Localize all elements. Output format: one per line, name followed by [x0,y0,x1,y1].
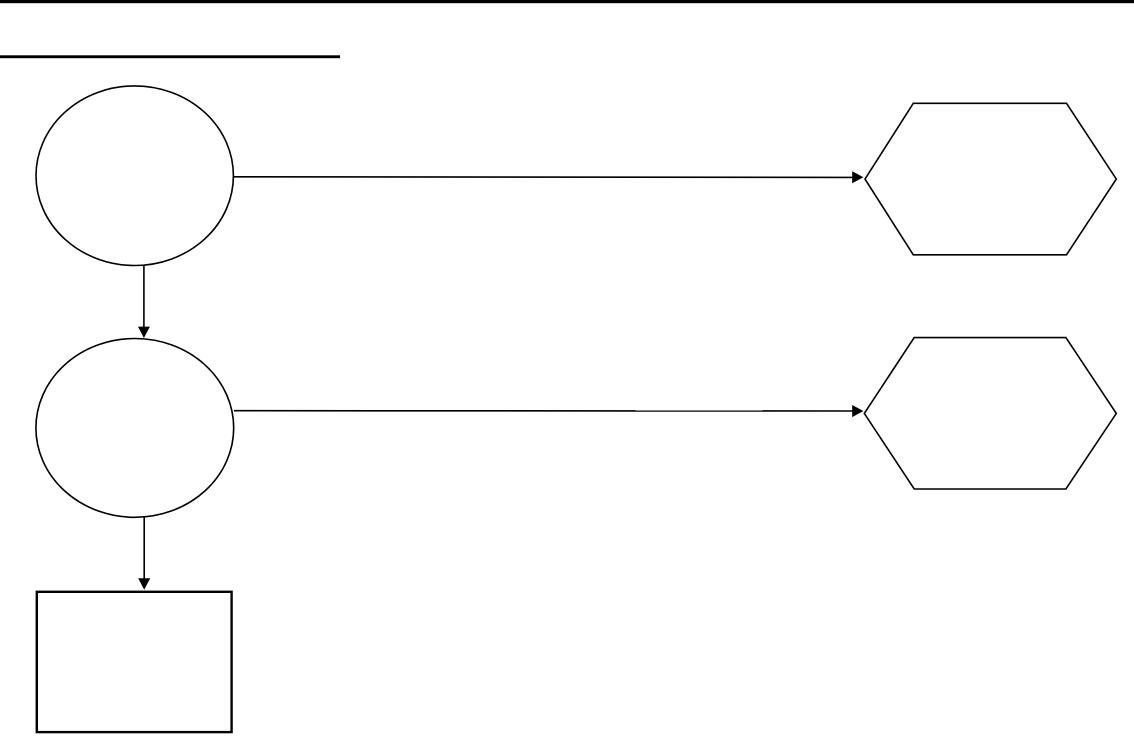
rectangle (bottom-left process box) [37,592,232,732]
heading underline [0,55,340,58]
top rule [0,0,1134,3]
wire: arrow circle 2 to hexagon 2 [234,405,863,417]
wire: arrow circle 2 down to rectangle [138,517,150,589]
wire: arrow circle 1 to hexagon 1 [234,171,864,183]
circle 2 (middle-left ellipse) [36,339,234,518]
hexagon 1 (top-right) [865,103,1116,255]
wire: arrow circle 1 down to circle 2 [138,266,150,338]
hexagon 2 (middle-right) [864,338,1116,489]
circle 1 (top-left ellipse) [36,86,233,266]
